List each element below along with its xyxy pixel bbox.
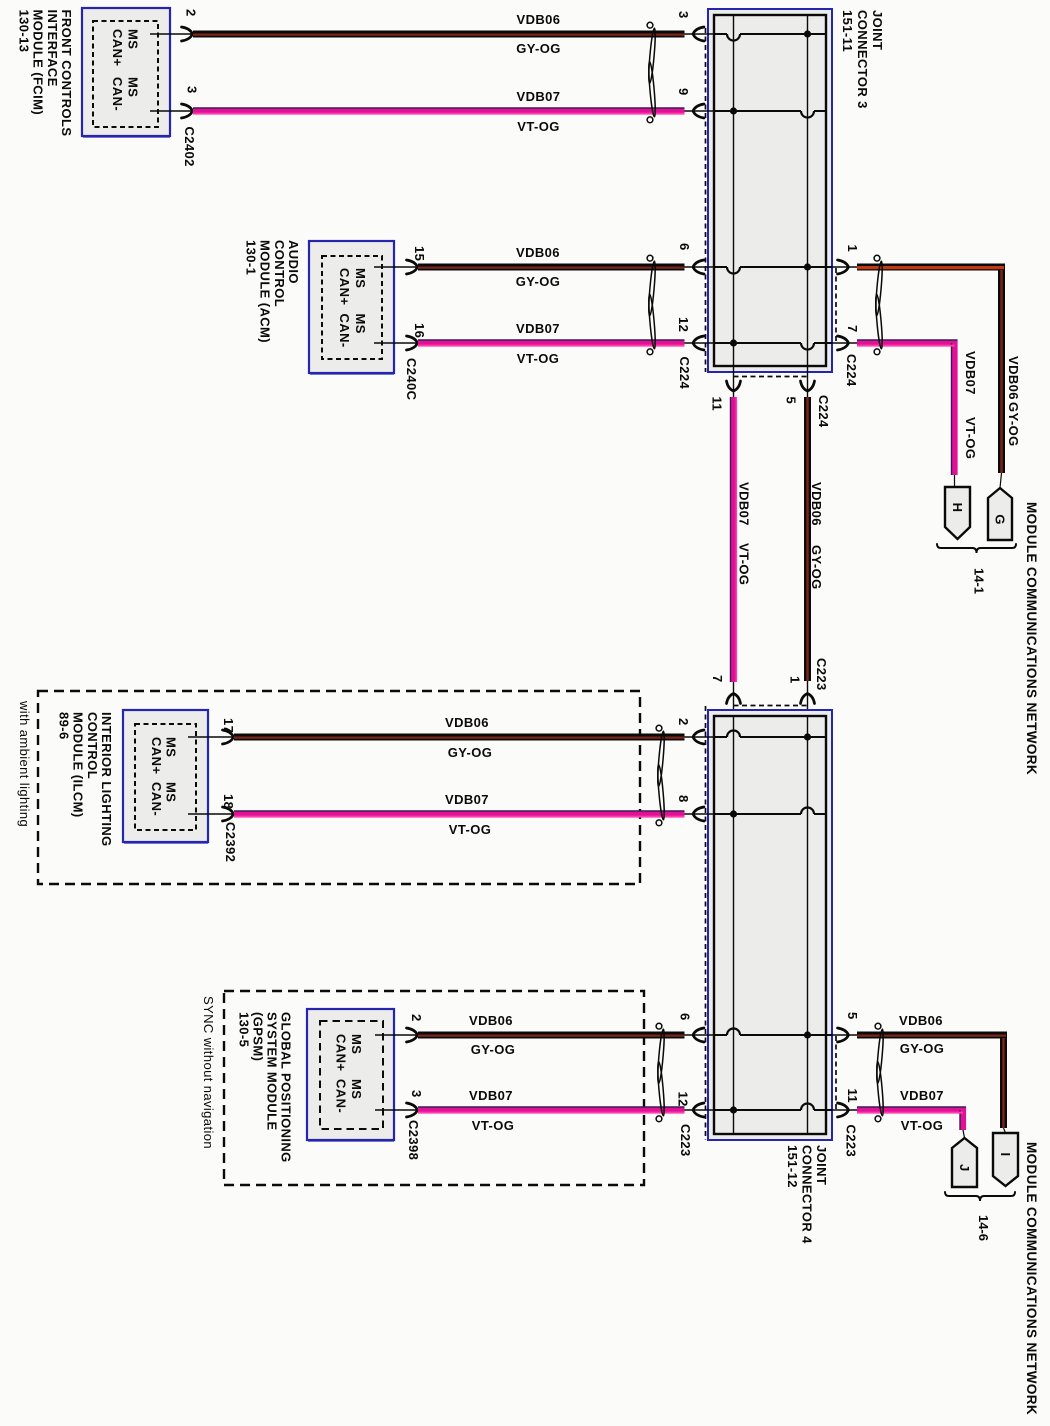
svg-text:8: 8 (676, 795, 691, 803)
svg-text:14-1: 14-1 (972, 568, 987, 594)
module FCIM inner dashed box (93, 21, 158, 127)
svg-text:C224: C224 (816, 395, 831, 428)
svg-text:6: 6 (678, 1013, 693, 1021)
svg-text:C2402: C2402 (182, 127, 197, 167)
label VT-OG (JC4 right) (901, 1118, 943, 1133)
twisted pair marker (FCIM wires) (647, 22, 656, 122)
svg-text:GY-OG: GY-OG (900, 1041, 945, 1056)
svg-text:14-6: 14-6 (976, 1215, 991, 1241)
pin 5 label (JC3) (784, 397, 799, 405)
label MODULE COMMUNICATIONS NETWORK (bottom) (1024, 1142, 1039, 1415)
label VT-OG (right drop) (963, 417, 978, 459)
svg-text:18: 18 (221, 794, 236, 809)
JC3 C224 dashed boundary (left) (705, 28, 707, 372)
svg-text:C223: C223 (814, 658, 829, 691)
junction dot pin9/VDB07 bus (730, 107, 737, 114)
module ACM inner dashed box (322, 256, 382, 359)
svg-text:MODULE COMMUNICATIONS NETWORK: MODULE COMMUNICATIONS NETWORK (1024, 1142, 1039, 1415)
svg-text:16: 16 (412, 323, 427, 338)
pin 5 label (JC4) (845, 1012, 860, 1020)
label GY-OG (JC4 right) (900, 1041, 945, 1056)
svg-text:VDB07: VDB07 (900, 1088, 944, 1103)
svg-text:VDB06: VDB06 (445, 715, 489, 730)
wire VDB07 VT-OG (ILCM pin18 to JC4 pin8) (234, 811, 685, 817)
svg-text:C223: C223 (844, 1125, 859, 1158)
pin 17 label (ILCM) (221, 718, 236, 733)
wire VDB06 GY-OG (JC3 pin5 to JC4 pin1) (804, 397, 811, 681)
JC4 pin 1 entry lead (801, 681, 815, 716)
connector J (952, 1138, 977, 1187)
JC3 pin9 internal wire (714, 111, 826, 118)
JC3 bus bar VDB07 (left) (733, 15, 735, 366)
module GPSM label (237, 1012, 294, 1163)
FCIM pin 3 lead (150, 104, 193, 118)
pin 9 label (JC3) (676, 88, 691, 96)
svg-text:with ambient lighting: with ambient lighting (17, 700, 32, 827)
JC4 C223 dashed boundary (left) (705, 706, 707, 1140)
svg-text:GY-OG: GY-OG (1006, 402, 1021, 447)
JC3 pin12-pin7 internal wire (714, 343, 832, 350)
pin 3 label (GPSM) (409, 1090, 424, 1098)
svg-text:C224: C224 (677, 357, 692, 390)
ACM pin 15 lead (374, 260, 418, 274)
connector label C223 (JC4 bottom left) (678, 1124, 693, 1157)
svg-text:MODULE COMMUNICATIONS NETWORK: MODULE COMMUNICATIONS NETWORK (1024, 502, 1039, 775)
label GY-OG (top) (516, 41, 561, 56)
twisted pair marker (GPSM wires) (656, 1023, 665, 1121)
connector label C224 (JC3 left) (677, 357, 692, 390)
svg-text:6: 6 (677, 243, 692, 251)
connector label C2402 (182, 127, 197, 167)
svg-text:VT-OG: VT-OG (737, 543, 752, 585)
junction dot pin12/VDB07 bus (730, 339, 737, 346)
pin 3 label (FCIM) (185, 86, 200, 94)
svg-text:3: 3 (185, 86, 200, 94)
JC3 pin 1 exit lead (832, 260, 857, 274)
svg-text:GY-OG: GY-OG (516, 274, 561, 289)
ILCM pin 18 lead (188, 807, 234, 821)
JC4 pin6-pin5 internal wire (714, 1029, 832, 1036)
svg-text:C223: C223 (678, 1124, 693, 1157)
JC4 pin 6 entry lead (685, 1028, 715, 1042)
label VT-OG (top) (517, 119, 559, 134)
svg-text:VDB06: VDB06 (809, 482, 824, 526)
module ACM label (243, 240, 301, 343)
JC3 bottom dashed boundary C224 (734, 376, 808, 378)
JC3 C224 dashed boundary (right) (835, 268, 837, 343)
joint connector 3 outer box (708, 9, 832, 372)
module GPSM box (307, 1009, 394, 1141)
label VDB06 (ACM) (516, 245, 560, 260)
connector G lead (1000, 473, 1002, 488)
label VDB06 (top) (517, 12, 561, 27)
module ILCM box (123, 710, 208, 843)
wire VDB07 VT-OG (JC4 pin11 to connector J) (857, 1107, 966, 1130)
svg-text:GY-OG: GY-OG (809, 545, 824, 590)
connector label C240C (404, 358, 419, 401)
module ILCM label (56, 712, 114, 847)
label 14-1 (972, 568, 987, 594)
svg-text:VT-OG: VT-OG (901, 1118, 943, 1133)
JC4 pin 11 exit lead (832, 1103, 857, 1117)
wire VDB06 GY-OG (JC4 pin5 to connector I) (857, 1035, 1006, 1128)
twisted pair marker (JC3 right wires) (874, 255, 883, 354)
label VT-OG (ILCM) (449, 822, 491, 837)
pin 11 label (JC4) (845, 1089, 860, 1104)
svg-text:VDB06: VDB06 (1006, 356, 1021, 400)
pin 12 label (JC4) (676, 1092, 691, 1107)
brace 14-6 (945, 1192, 1015, 1201)
svg-text:11: 11 (845, 1089, 860, 1104)
label MODULE COMMUNICATIONS NETWORK (top) (1024, 502, 1039, 775)
wire VDB06 GY-OG (JC3 pin1 to connector G) (857, 267, 1004, 473)
svg-text:5: 5 (845, 1012, 860, 1020)
junction dot pin6/VDB06 bus (804, 263, 811, 270)
wire VDB06 GY-OG (FCIM pin2 to JC3 pin3) (193, 31, 685, 39)
svg-text:12: 12 (676, 317, 691, 332)
JC3 pin 12 entry lead (685, 336, 715, 350)
JC3 pin 11 exit lead (727, 366, 741, 397)
label GY-OG (ACM) (516, 274, 561, 289)
label GY-OG (GPSM) (471, 1042, 516, 1057)
JC3 pin6-pin1 internal wire (714, 267, 832, 274)
ILCM pin 17 lead (188, 730, 234, 744)
junction dot pin12/VDB07 bus (JC4) (730, 1106, 737, 1113)
ACM pin 16 lead (374, 336, 418, 350)
joint connector 3 inner box (714, 15, 826, 366)
svg-text:9: 9 (676, 88, 691, 96)
JC4 bus bar VDB06 (right) (807, 716, 809, 1134)
connector label C2398 (406, 1120, 421, 1160)
svg-text:I: I (998, 1153, 1013, 1157)
pin 16 label (ACM) (412, 323, 427, 338)
label VDB06 (link) (809, 482, 824, 526)
JC3 pin 7 exit lead (832, 336, 857, 350)
twisted pair marker (JC4 right wires) (875, 1023, 884, 1121)
label GY-OG (link) (809, 545, 824, 590)
wire VDB07 VT-OG (ACM pin16 to JC3 pin12) (418, 340, 685, 346)
svg-text:7: 7 (710, 675, 725, 683)
junction dot pin8/VDB07 bus (730, 810, 737, 817)
module FCIM box (82, 8, 170, 137)
label VDB06 (JC4 right) (899, 1013, 943, 1028)
svg-text:VT-OG: VT-OG (472, 1118, 514, 1133)
wire VDB06 GY-OG (ACM pin15 to JC3 pin6) (418, 264, 685, 272)
JC4 pin 12 entry lead (685, 1103, 715, 1117)
GPSM MS CAN- label (334, 1079, 365, 1113)
JC4 pin 2 entry lead (685, 730, 715, 744)
pin 6 label (JC3) (677, 243, 692, 251)
svg-text:7: 7 (845, 325, 860, 333)
svg-text:J: J (957, 1164, 972, 1171)
joint connector 3 label (840, 10, 885, 109)
dashed container (SYNC without navigation) (224, 991, 644, 1185)
pin 2 label (FCIM) (184, 9, 199, 17)
GPSM pin 2 lead (375, 1028, 418, 1042)
label VDB07 (JC4 right) (900, 1088, 944, 1103)
connector H lead (954, 475, 956, 487)
label SYNC without navigation (201, 996, 216, 1149)
twisted pair marker (ILCM wires) (656, 725, 665, 825)
junction dot pin3/VDB06 bus (804, 30, 811, 37)
pin 12 label (JC3) (676, 317, 691, 332)
GPSM pin 3 lead (375, 1103, 418, 1117)
svg-text:VDB07: VDB07 (469, 1088, 513, 1103)
JC3 pin3 internal wire (714, 34, 826, 41)
connector G (988, 488, 1012, 540)
ACM MS CAN+ label (337, 268, 368, 305)
JC3 pin 6 entry lead (685, 260, 715, 274)
FCIM pin 2 lead (150, 27, 193, 41)
svg-text:G: G (992, 514, 1007, 524)
pin 2 label (JC4) (676, 718, 691, 726)
connector I (993, 1133, 1018, 1186)
label with ambient lighting (17, 700, 32, 827)
label VDB07 (top) (517, 89, 561, 104)
JC4 pin 5 exit lead (832, 1028, 857, 1042)
JC4 pin 7 entry lead (727, 682, 741, 716)
ACM MS CAN- label (337, 314, 368, 348)
brace 14-1 (937, 544, 1016, 553)
label 14-6 (976, 1215, 991, 1241)
wire VDB06 GY-OG (ILCM pin17 to JC4 pin2) (234, 734, 685, 742)
svg-text:VT-OG: VT-OG (517, 119, 559, 134)
connector label C2392 (223, 822, 238, 862)
svg-text:C2392: C2392 (223, 822, 238, 862)
svg-text:VDB07: VDB07 (737, 482, 752, 526)
svg-text:5: 5 (784, 397, 799, 405)
pin 1 label (JC3) (845, 245, 860, 253)
svg-text:2: 2 (409, 1014, 424, 1022)
svg-text:VDB07: VDB07 (963, 351, 978, 395)
svg-text:H: H (950, 503, 965, 512)
svg-text:C240C: C240C (404, 358, 419, 401)
pin 7 label (JC4 top) (710, 675, 725, 683)
svg-text:VDB06: VDB06 (517, 12, 561, 27)
connector H (945, 487, 970, 539)
connector label C224 (JC3 bottom) (816, 395, 831, 428)
label VDB07 (right drop) (963, 351, 978, 395)
svg-text:VDB06: VDB06 (899, 1013, 943, 1028)
FCIM MS CAN+ label (110, 29, 141, 66)
JC4 pin8 internal wire (714, 808, 826, 815)
label VT-OG (link) (737, 543, 752, 585)
svg-text:GY-OG: GY-OG (471, 1042, 516, 1057)
pin 2 label (GPSM) (409, 1014, 424, 1022)
JC3 pin 5 exit lead (801, 366, 815, 397)
wire VDB07 VT-OG (GPSM pin3 to JC4 pin12) (418, 1107, 685, 1113)
ILCM MS CAN+ label (149, 737, 179, 774)
GPSM MS CAN+ label (334, 1034, 365, 1071)
junction dot pin6/VDB06 bus (JC4) (804, 1031, 811, 1038)
JC4 top dashed boundary C223 (734, 705, 808, 707)
svg-text:3: 3 (409, 1090, 424, 1098)
svg-text:VT-OG: VT-OG (963, 417, 978, 459)
label VDB06 (ILCM) (445, 715, 489, 730)
label VDB07 (link) (737, 482, 752, 526)
svg-text:VT-OG: VT-OG (449, 822, 491, 837)
wire VDB06 GY-OG (GPSM pin2 to JC4 pin6) (418, 1032, 685, 1040)
svg-text:1: 1 (788, 676, 803, 684)
module GPSM inner dashed box (320, 1021, 383, 1129)
JC4 pin 8 entry lead (685, 807, 715, 821)
pin 15 label (ACM) (412, 246, 427, 261)
svg-text:C2398: C2398 (406, 1120, 421, 1160)
JC4 pin12-pin11 internal wire (714, 1104, 832, 1110)
label VDB06 (right drop) (1006, 356, 1021, 400)
svg-text:VT-OG: VT-OG (517, 351, 559, 366)
dashed container (with ambient lighting) (38, 691, 640, 884)
pin 1 label (JC4 top) (788, 676, 803, 684)
module ILCM inner dashed box (135, 724, 196, 830)
pin 8 label (JC4) (676, 795, 691, 803)
pin 7 label (JC3) (845, 325, 860, 333)
pin 11 label (JC3) (710, 397, 725, 412)
svg-text:VDB06: VDB06 (516, 245, 560, 260)
JC4 pin2 internal wire (714, 731, 826, 737)
label VT-OG (GPSM) (472, 1118, 514, 1133)
JC4 C223 dashed boundary (right) (835, 1036, 837, 1110)
svg-text:12: 12 (676, 1092, 691, 1107)
svg-text:3: 3 (676, 11, 691, 19)
pin 3 label (JC3) (676, 11, 691, 19)
JC3 bus bar VDB06 (right) (807, 15, 809, 366)
label VDB07 (ILCM) (445, 792, 489, 807)
joint connector 4 label (785, 1145, 829, 1244)
FCIM MS CAN- label (110, 77, 141, 111)
module ACM box (309, 241, 394, 374)
svg-text:11: 11 (710, 397, 725, 412)
JC3 pin 3 entry lead (685, 27, 715, 41)
svg-text:C224: C224 (844, 354, 859, 387)
svg-text:1: 1 (845, 245, 860, 253)
label VDB07 (GPSM) (469, 1088, 513, 1103)
JC4 bus bar VDB07 (left) (733, 716, 735, 1134)
label VDB06 (GPSM) (469, 1013, 513, 1028)
svg-text:GY-OG: GY-OG (448, 745, 493, 760)
svg-text:VDB07: VDB07 (445, 792, 489, 807)
svg-text:VDB07: VDB07 (516, 321, 560, 336)
pin 6 label (JC4) (678, 1013, 693, 1021)
svg-text:VDB06: VDB06 (469, 1013, 513, 1028)
pin 18 label (ILCM) (221, 794, 236, 809)
joint connector 4 outer box (708, 710, 832, 1140)
wire VDB07 VT-OG (JC3 pin11 to JC4 pin7) (731, 397, 737, 682)
twisted pair marker (ACM wires) (647, 255, 656, 354)
svg-text:GY-OG: GY-OG (516, 41, 561, 56)
connector J lead (963, 1130, 965, 1138)
connector label C224 (JC3 right) (844, 354, 859, 387)
svg-text:17: 17 (221, 718, 236, 733)
label VT-OG (ACM) (517, 351, 559, 366)
joint connector 4 inner box (714, 716, 826, 1134)
svg-text:SYNC without navigation: SYNC without navigation (201, 996, 216, 1149)
junction dot pin2/VDB06 bus (804, 733, 811, 740)
connector label C223 (JC4 right) (844, 1125, 859, 1158)
svg-text:VDB07: VDB07 (517, 89, 561, 104)
ILCM MS CAN- label (149, 782, 179, 816)
wire VDB07 VT-OG (JC3 pin7 to connector H) (857, 340, 958, 475)
svg-text:2: 2 (184, 9, 199, 17)
connector label C223 (link bottom) (814, 658, 829, 691)
wire VDB07 VT-OG (FCIM pin3 to JC3 pin9) (193, 108, 685, 114)
svg-text:2: 2 (676, 718, 691, 726)
connector I lead (1004, 1128, 1006, 1133)
svg-text:15: 15 (412, 246, 427, 261)
label GY-OG (ILCM) (448, 745, 493, 760)
module FCIM label (16, 10, 74, 137)
label GY-OG (right drop) (1006, 402, 1021, 447)
JC3 pin 9 entry lead (685, 104, 715, 118)
label VDB07 (ACM) (516, 321, 560, 336)
